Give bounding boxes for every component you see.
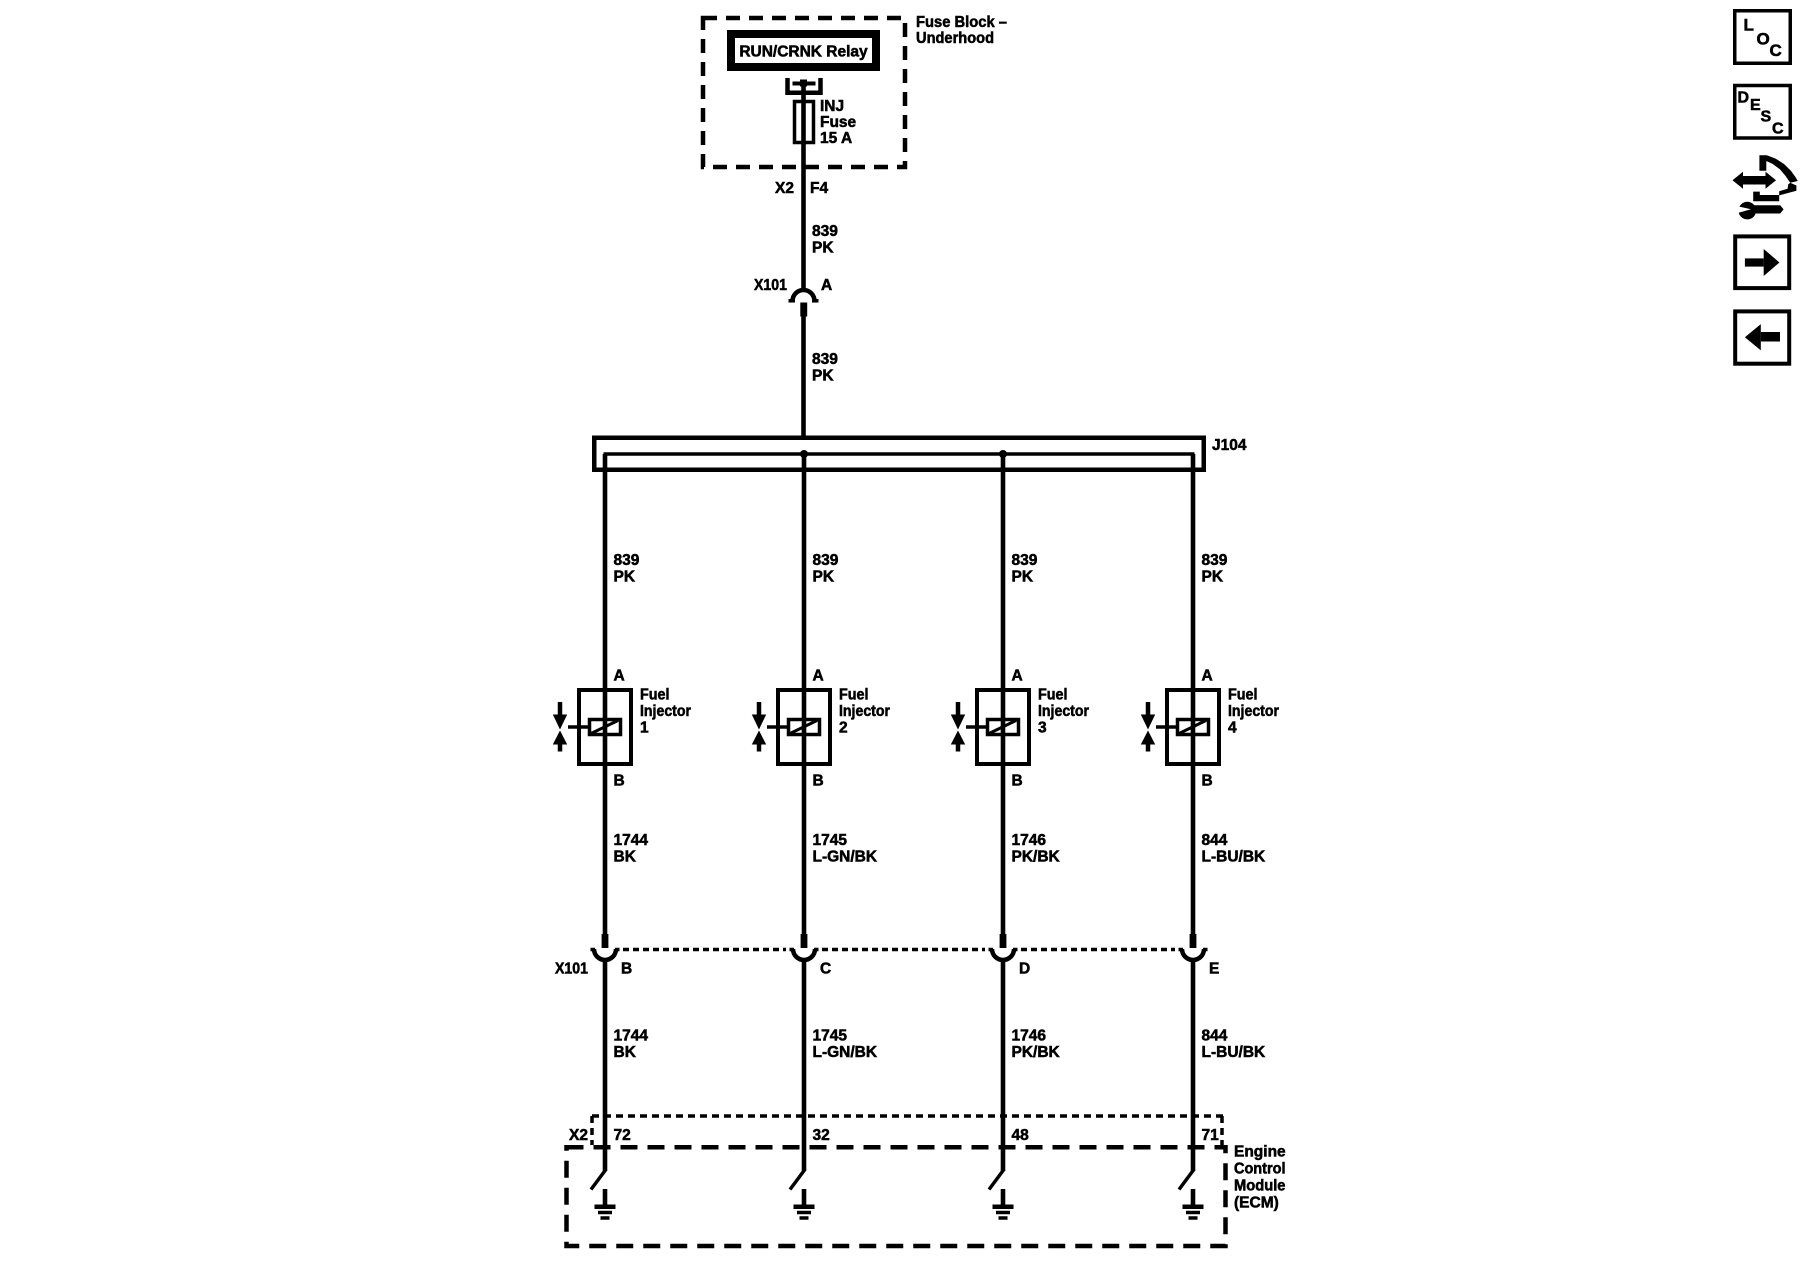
wire label 839 PK branch 2 (813, 552, 839, 586)
svg-text:Engine: Engine (1234, 1144, 1286, 1161)
svg-text:Fuel: Fuel (1228, 687, 1258, 704)
svg-text:Module: Module (1234, 1178, 1286, 1195)
svg-text:A: A (1202, 668, 1213, 685)
svg-text:X101: X101 (754, 277, 787, 294)
svg-text:X2: X2 (569, 1127, 588, 1144)
svg-text:839: 839 (1202, 552, 1228, 569)
previous page arrow button (1735, 311, 1789, 363)
svg-text:2: 2 (839, 720, 848, 737)
pin B label injector 1 (614, 773, 625, 790)
svg-text:L-BU/BK: L-BU/BK (1202, 1044, 1267, 1061)
svg-text:B: B (614, 773, 625, 790)
ECM pin 32 label (813, 1127, 830, 1144)
connector X101 body dashed line C-D (822, 948, 985, 952)
svg-text:PK/BK: PK/BK (1012, 849, 1061, 866)
wire label 839 PK branch 4 (1202, 552, 1228, 586)
wire: injector 3 pin B to X101 (1746 PK/BK) (1001, 764, 1006, 935)
svg-text:839: 839 (1012, 552, 1038, 569)
svg-text:L-BU/BK: L-BU/BK (1202, 849, 1267, 866)
svg-text:PK: PK (1202, 569, 1224, 586)
relay output terminal symbol (788, 78, 821, 93)
relay RUN/CRNK (731, 34, 876, 67)
ECM pin 48 label (1012, 1127, 1030, 1144)
ground symbol 4 (1183, 1189, 1204, 1218)
svg-text:Underhood: Underhood (916, 30, 994, 47)
junction dot at J104 feed (800, 450, 808, 458)
ECM pin 71 label (1202, 1127, 1220, 1144)
svg-text:B: B (621, 961, 632, 978)
fuse block label (916, 14, 1007, 47)
svg-text:D: D (1738, 89, 1750, 106)
ground symbol 3 (993, 1189, 1014, 1218)
wire label 839 PK (below X101 A) (812, 351, 838, 385)
svg-text:E: E (1750, 97, 1761, 114)
wire label 1744 BK (above X101) (614, 832, 649, 866)
svg-text:Control: Control (1234, 1161, 1286, 1178)
ECM driver switch 4 (1179, 1170, 1194, 1190)
connector X101 pin B (591, 934, 633, 978)
ground symbol 1 (595, 1189, 616, 1218)
svg-text:1746: 1746 (1012, 1028, 1047, 1045)
svg-text:A: A (821, 277, 832, 294)
junction dot at J104 branch 3 (999, 450, 1007, 458)
pin labels X2 F4 (775, 180, 828, 197)
svg-text:839: 839 (812, 351, 838, 368)
svg-text:S: S (1761, 108, 1772, 125)
ECM connector X2 dotted line (592, 1116, 1223, 1145)
connector X101 body dashed line D-E (1021, 948, 1175, 952)
svg-text:15 A: 15 A (820, 130, 852, 147)
connector X101 body dashed line B-C (623, 948, 786, 952)
svg-text:Fuel: Fuel (1038, 687, 1068, 704)
pin B label injector 4 (1202, 773, 1213, 790)
next page arrow button (1735, 236, 1789, 288)
svg-text:Fuel: Fuel (839, 687, 869, 704)
wire: X101 B to ECM pin 72 (1744 BK) (603, 960, 608, 1171)
svg-text:C: C (1770, 41, 1782, 60)
svg-text:INJ: INJ (820, 98, 844, 115)
engine control module dashed box (567, 1147, 1226, 1246)
ECM driver switch 1 (591, 1170, 606, 1190)
svg-text:PK: PK (614, 569, 636, 586)
pin A label injector 3 (1012, 668, 1023, 685)
fuse INJ 15 A (795, 98, 857, 147)
svg-text:Fuse: Fuse (820, 114, 857, 131)
svg-text:71: 71 (1202, 1127, 1220, 1144)
svg-text:L-GN/BK: L-GN/BK (813, 849, 878, 866)
svg-text:B: B (813, 773, 824, 790)
connector X101 pin D (989, 934, 1031, 978)
svg-text:C: C (1772, 121, 1784, 138)
svg-text:1745: 1745 (813, 1028, 848, 1045)
svg-text:E: E (1209, 961, 1219, 978)
svg-text:Injector: Injector (1228, 703, 1279, 720)
svg-text:839: 839 (813, 552, 839, 569)
wire: J104 to fuel injector 3 pin A (839 PK) (1001, 454, 1006, 690)
LOC button (1735, 11, 1791, 64)
svg-text:(ECM): (ECM) (1234, 1195, 1279, 1212)
connector X101 pin E (1179, 934, 1220, 978)
svg-text:1745: 1745 (813, 832, 848, 849)
wire label 839 PK (above X101) (812, 223, 838, 257)
svg-text:PK/BK: PK/BK (1012, 1044, 1061, 1061)
svg-text:A: A (1012, 668, 1023, 685)
svg-text:Injector: Injector (839, 703, 890, 720)
svg-text:J104: J104 (1212, 437, 1247, 454)
svg-text:L-GN/BK: L-GN/BK (813, 1044, 878, 1061)
svg-text:D: D (1019, 961, 1030, 978)
splice pack J104 (594, 437, 1247, 470)
svg-text:32: 32 (813, 1127, 830, 1144)
svg-text:B: B (1012, 773, 1023, 790)
wire: injector 1 pin B to X101 (1744 BK) (603, 764, 608, 935)
svg-text:4: 4 (1228, 720, 1237, 737)
svg-text:X2: X2 (775, 180, 794, 197)
svg-text:1: 1 (640, 720, 649, 737)
svg-text:3: 3 (1038, 720, 1047, 737)
pin B label injector 3 (1012, 773, 1023, 790)
svg-text:PK: PK (812, 240, 834, 257)
svg-text:A: A (614, 668, 625, 685)
wire: X101 E to ECM pin 71 (844 L-BU/BK) (1191, 960, 1196, 1171)
svg-text:L: L (1744, 16, 1754, 35)
wire label 844 L-BU/BK (above X101) (1202, 832, 1267, 866)
wire label 1745 L-GN/BK (below X101) (813, 1028, 878, 1062)
svg-text:Fuel: Fuel (640, 687, 670, 704)
svg-text:844: 844 (1202, 1028, 1228, 1045)
wire: injector 4 pin B to X101 (844 L-BU/BK) (1191, 764, 1196, 935)
svg-text:PK: PK (1012, 569, 1034, 586)
svg-text:RUN/CRNK Relay: RUN/CRNK Relay (739, 44, 868, 61)
wire label 844 L-BU/BK (below X101) (1202, 1028, 1267, 1062)
svg-text:839: 839 (812, 223, 838, 240)
wire: X101 D to ECM pin 48 (1746 PK/BK) (1001, 960, 1006, 1171)
svg-text:Fuse Block –: Fuse Block – (916, 14, 1007, 31)
connector repair icon (double arrow) (1733, 172, 1777, 189)
fuel injector 2 (752, 687, 890, 765)
svg-text:X101: X101 (555, 961, 588, 978)
svg-text:C: C (820, 961, 831, 978)
pin A label injector 1 (614, 668, 625, 685)
connector repair icon (loop arrow) (1753, 155, 1798, 201)
svg-text:1746: 1746 (1012, 832, 1047, 849)
connector X101 pin A (754, 277, 832, 317)
wire: J104 to fuel injector 1 pin A (839 PK) (603, 454, 608, 690)
wire label 839 PK branch 1 (614, 552, 640, 586)
fuel injector 4 (1141, 687, 1279, 765)
wire label 1746 PK/BK (above X101) (1012, 832, 1061, 866)
ECM label (1234, 1144, 1286, 1212)
ECM driver switch 2 (790, 1170, 805, 1190)
svg-text:BK: BK (614, 1044, 637, 1061)
svg-text:A: A (813, 668, 824, 685)
svg-text:1744: 1744 (614, 832, 649, 849)
pin A label injector 4 (1202, 668, 1213, 685)
svg-text:PK: PK (813, 569, 835, 586)
ECM connector X2 label (569, 1127, 588, 1144)
wire label 1745 L-GN/BK (above X101) (813, 832, 878, 866)
wire label 1746 PK/BK (below X101) (1012, 1028, 1061, 1062)
svg-text:839: 839 (614, 552, 640, 569)
wire label 1744 BK (below X101) (614, 1028, 649, 1062)
svg-text:O: O (1757, 29, 1770, 48)
pin A label injector 2 (813, 668, 824, 685)
ECM driver switch 3 (989, 1170, 1004, 1190)
fuel injector 3 (951, 687, 1089, 765)
svg-text:844: 844 (1202, 832, 1228, 849)
svg-text:Injector: Injector (640, 703, 691, 720)
wire label 839 PK branch 3 (1012, 552, 1038, 586)
ECM pin 72 label (614, 1127, 631, 1144)
svg-text:PK: PK (812, 368, 834, 385)
DESC button (1735, 86, 1791, 139)
pin B label injector 2 (813, 773, 824, 790)
fuse block underhood dashed box (703, 18, 905, 167)
fuel injector 1 (553, 687, 691, 765)
wire: X101 A to splice J104 (839 PK) (801, 317, 806, 441)
wire: X101 C to ECM pin 32 (1745 L-GN/BK) (802, 960, 807, 1171)
svg-text:B: B (1202, 773, 1213, 790)
connector repair icon (wrench) (1737, 202, 1784, 220)
wire: relay to connector X101 A (839 PK) (801, 86, 806, 290)
ground symbol 2 (794, 1189, 815, 1218)
svg-text:48: 48 (1012, 1127, 1030, 1144)
wire: injector 2 pin B to X101 (1745 L-GN/BK) (802, 764, 807, 935)
svg-text:F4: F4 (810, 180, 828, 197)
wire: J104 to fuel injector 4 pin A (839 PK) (1191, 454, 1196, 690)
svg-text:BK: BK (614, 849, 637, 866)
svg-text:72: 72 (614, 1127, 631, 1144)
connector X101 pin C (790, 934, 832, 978)
wire: J104 to fuel injector 2 pin A (839 PK) (802, 454, 807, 690)
svg-text:1744: 1744 (614, 1028, 649, 1045)
svg-text:Injector: Injector (1038, 703, 1089, 720)
connector X101 lower label (555, 961, 588, 978)
